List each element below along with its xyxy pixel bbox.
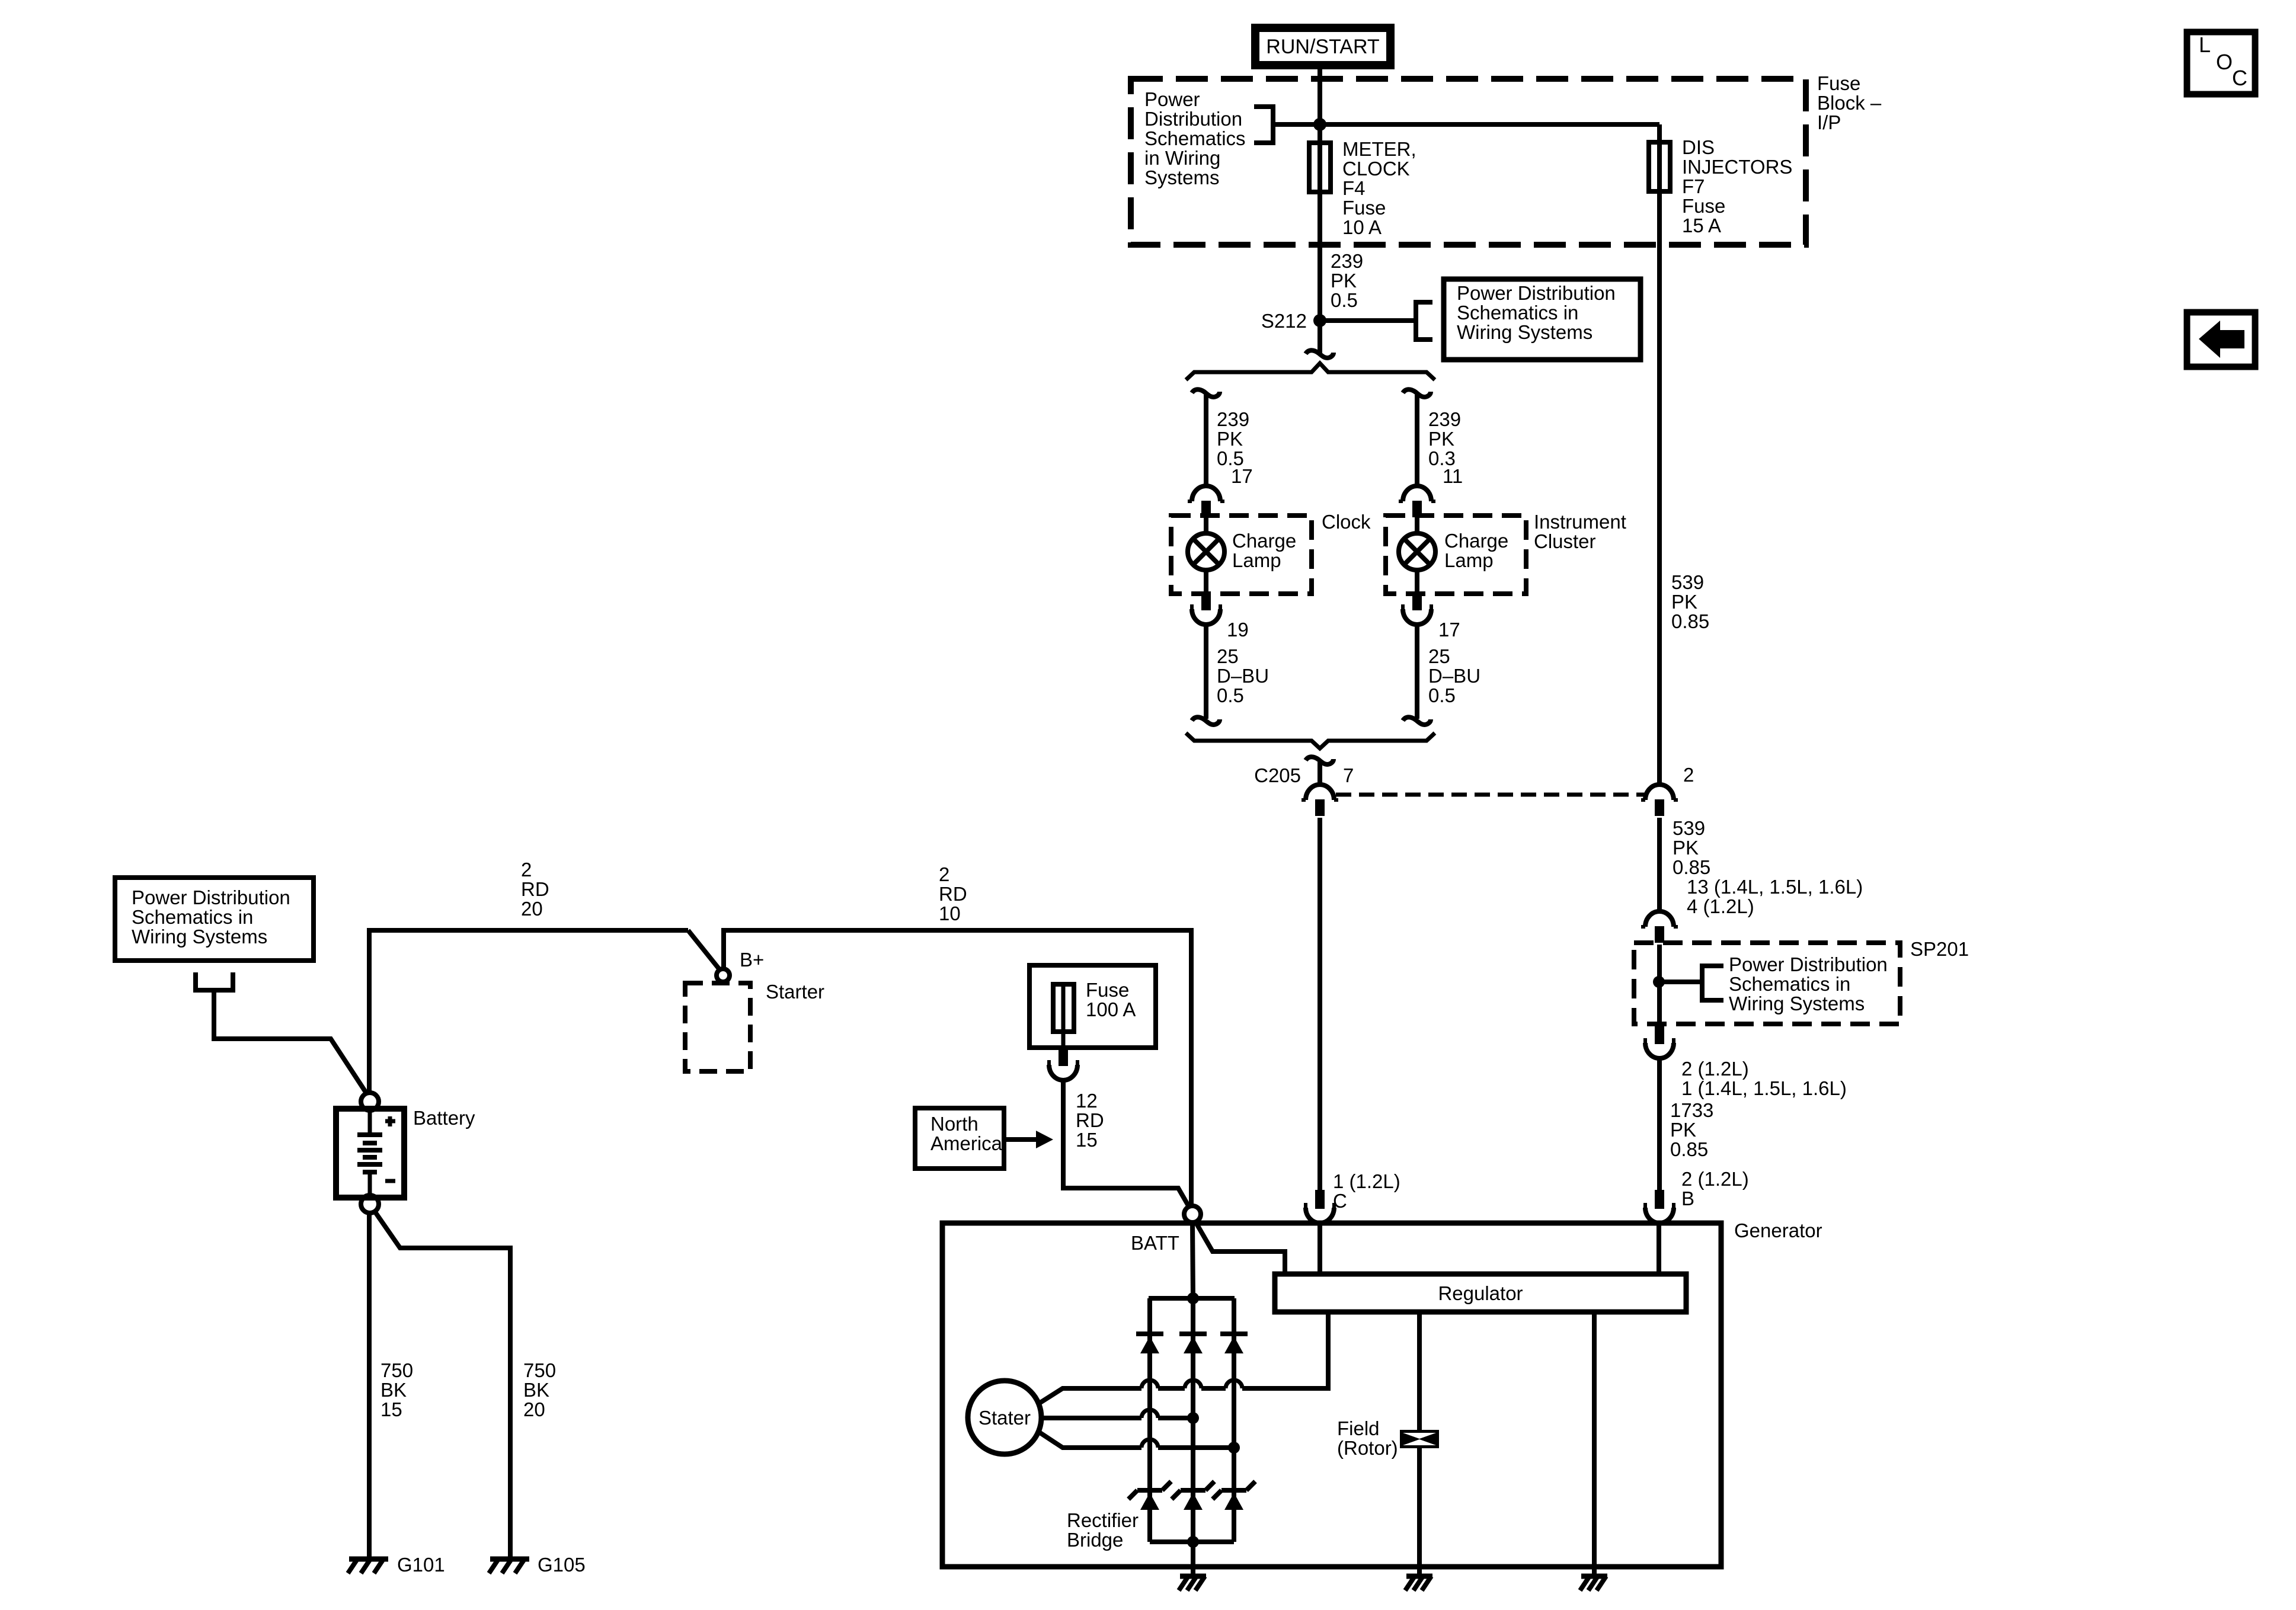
label B+ bbox=[740, 949, 764, 971]
ground G105 bbox=[490, 1557, 529, 1562]
instrument cluster dashed box bbox=[1386, 516, 1526, 594]
wire break below S212 bbox=[1306, 350, 1334, 358]
wire label 1733 PK 0.85 bbox=[1670, 1099, 1713, 1160]
svg-text:D–BU: D–BU bbox=[1428, 665, 1480, 687]
pins 2 / 1 engine variants bbox=[1681, 1058, 1847, 1099]
fuse 100A box bbox=[1029, 965, 1156, 1048]
wire break top of cluster branch bbox=[1403, 389, 1431, 397]
battery minus sign bbox=[385, 1179, 395, 1183]
battery cell symbol bbox=[368, 1109, 372, 1135]
svg-text:0.5: 0.5 bbox=[1217, 684, 1244, 706]
svg-text:O: O bbox=[2216, 50, 2233, 74]
label Battery bbox=[413, 1107, 475, 1129]
svg-text:1 (1.2L): 1 (1.2L) bbox=[1333, 1170, 1400, 1192]
connector generator terminal C (pin+cup) bbox=[1315, 1190, 1325, 1209]
label North America bbox=[930, 1113, 1003, 1154]
splice brace upper bbox=[1186, 363, 1435, 380]
label BATT bbox=[1131, 1232, 1179, 1254]
wire - BATT to regulator bbox=[1195, 1221, 1285, 1274]
svg-text:Schematics: Schematics bbox=[1144, 127, 1246, 149]
svg-text:Charge: Charge bbox=[1232, 530, 1296, 552]
svg-text:25: 25 bbox=[1428, 645, 1450, 667]
wire label 239 PK 0.5 (clock branch) bbox=[1217, 408, 1249, 469]
pins 13 / 4 engine variants bbox=[1687, 876, 1863, 917]
svg-text:0.5: 0.5 bbox=[1331, 289, 1358, 311]
svg-text:DIS: DIS bbox=[1682, 136, 1715, 158]
svg-text:BK: BK bbox=[523, 1379, 549, 1401]
svg-text:RD: RD bbox=[939, 883, 967, 905]
fuse F4 METER CLOCK 10A bbox=[1309, 143, 1331, 192]
rectifier column 1 wire bbox=[1147, 1298, 1152, 1542]
svg-text:25: 25 bbox=[1217, 645, 1239, 667]
connector into SP201 (dome+pin) bbox=[1645, 911, 1674, 927]
wire label 2 RD 20 bbox=[521, 859, 549, 920]
svg-text:BATT: BATT bbox=[1131, 1232, 1179, 1254]
svg-text:B: B bbox=[1681, 1188, 1694, 1209]
svg-text:750: 750 bbox=[380, 1359, 413, 1381]
connector generator terminal B (pin+cup) bbox=[1655, 1190, 1664, 1209]
wire - cluster branch lower bbox=[1415, 625, 1419, 719]
charge lamp (clock) indicator bbox=[1188, 533, 1224, 570]
ignition feed RUN/START box bbox=[1255, 28, 1390, 65]
wire - cluster lamp to connector bbox=[1415, 570, 1419, 594]
wire - into cluster lamp bbox=[1415, 518, 1419, 534]
connector into clock (dome+pin) bbox=[1192, 486, 1220, 501]
battery positive terminal circle bbox=[361, 1093, 379, 1110]
svg-text:17: 17 bbox=[1438, 619, 1460, 641]
svg-text:2: 2 bbox=[939, 863, 949, 885]
pin 2 / terminal B labels bbox=[1681, 1168, 1749, 1209]
svg-text:0.85: 0.85 bbox=[1670, 1138, 1708, 1160]
svg-text:1733: 1733 bbox=[1670, 1099, 1713, 1121]
svg-text:PK: PK bbox=[1673, 837, 1699, 859]
back arrow box bbox=[2187, 312, 2255, 367]
svg-text:PK: PK bbox=[1331, 270, 1357, 292]
stator winding circle bbox=[968, 1381, 1041, 1454]
svg-text:METER,: METER, bbox=[1342, 138, 1416, 160]
label inside fuse block: Power Distribution Schematics in Wiring Systems bbox=[1144, 88, 1246, 188]
ground below field bbox=[1406, 1574, 1432, 1579]
bracket to power distribution reference (S212) bbox=[1416, 302, 1432, 340]
wire - F7 fuse drop bbox=[1657, 124, 1662, 785]
pin 11 (cluster) bbox=[1443, 465, 1463, 487]
label S212 bbox=[1261, 310, 1307, 332]
svg-text:G101: G101 bbox=[397, 1554, 445, 1576]
svg-text:15 A: 15 A bbox=[1682, 215, 1721, 236]
label fuse F7 bbox=[1682, 136, 1792, 236]
svg-text:239: 239 bbox=[1217, 408, 1249, 430]
svg-text:1 (1.4L, 1.5L, 1.6L): 1 (1.4L, 1.5L, 1.6L) bbox=[1681, 1077, 1847, 1099]
bracket below battery reference box bbox=[196, 972, 233, 990]
label Regulator bbox=[1438, 1282, 1523, 1304]
svg-text:539: 539 bbox=[1673, 817, 1705, 839]
svg-text:BK: BK bbox=[380, 1379, 407, 1401]
rectifier column 3 wire bbox=[1232, 1298, 1236, 1542]
ground below rectifier bbox=[1180, 1574, 1206, 1579]
svg-text:2 (1.2L): 2 (1.2L) bbox=[1681, 1168, 1749, 1190]
pin 2 at C205 bbox=[1683, 764, 1694, 786]
wire break above C205 bbox=[1306, 757, 1334, 764]
svg-text:PK: PK bbox=[1217, 428, 1243, 450]
label Charge Lamp (cluster) bbox=[1444, 530, 1508, 571]
label G105 bbox=[538, 1554, 586, 1576]
avalanche diode lower col2 bbox=[1181, 1488, 1205, 1493]
svg-text:PK: PK bbox=[1670, 1119, 1696, 1141]
svg-text:PK: PK bbox=[1428, 428, 1454, 450]
svg-text:Distribution: Distribution bbox=[1144, 108, 1242, 130]
label SP201 reference bbox=[1729, 953, 1888, 1014]
label fuse F4 bbox=[1342, 138, 1416, 238]
rectifier column 2 wire bbox=[1191, 1298, 1195, 1542]
wire label 239 PK 0.5 (feed) bbox=[1331, 250, 1363, 311]
label reference box bbox=[1457, 282, 1616, 343]
splice brace lower bbox=[1186, 733, 1435, 748]
wire - clock branch lower bbox=[1204, 625, 1208, 719]
ground below regulator right leg bbox=[1581, 1574, 1607, 1579]
wire - SP201 node to bracket bbox=[1659, 980, 1702, 984]
diode upper col2 bbox=[1179, 1331, 1207, 1336]
wire - field to ground bbox=[1417, 1448, 1422, 1576]
svg-text:750: 750 bbox=[523, 1359, 556, 1381]
svg-text:I/P: I/P bbox=[1817, 111, 1841, 133]
wire - junction to DIS INJECTORS fuse F7 bbox=[1273, 122, 1659, 127]
svg-text:Wiring Systems: Wiring Systems bbox=[1729, 993, 1865, 1014]
wire label 25 D-BU 0.5 (clock) bbox=[1217, 645, 1269, 706]
svg-text:13 (1.4L, 1.5L, 1.6L): 13 (1.4L, 1.5L, 1.6L) bbox=[1687, 876, 1863, 898]
svg-text:Starter: Starter bbox=[766, 981, 824, 1003]
stator phase wire 1 bbox=[1038, 1388, 1141, 1404]
svg-text:Power Distribution: Power Distribution bbox=[132, 886, 290, 908]
connector below fuse 100A (pin+cup) bbox=[1059, 1047, 1068, 1066]
svg-text:(Rotor): (Rotor) bbox=[1337, 1437, 1398, 1459]
svg-text:10 A: 10 A bbox=[1342, 216, 1382, 238]
svg-text:2: 2 bbox=[521, 859, 532, 881]
svg-text:100 A: 100 A bbox=[1086, 998, 1136, 1020]
svg-text:Block –: Block – bbox=[1817, 92, 1882, 114]
wire - clock branch upper bbox=[1204, 395, 1208, 486]
svg-text:Stater: Stater bbox=[978, 1407, 1031, 1429]
label Charge Lamp (clock) bbox=[1232, 530, 1296, 571]
bracket to power distribution reference (SP201) bbox=[1702, 966, 1723, 1000]
svg-text:Instrument: Instrument bbox=[1534, 511, 1626, 533]
diode upper col1 bbox=[1136, 1331, 1163, 1336]
svg-text:Schematics in: Schematics in bbox=[132, 906, 253, 928]
field rotor winding symbol bbox=[1400, 1430, 1439, 1448]
pin 19 (clock out) bbox=[1227, 619, 1249, 641]
LOC legend box bbox=[2187, 32, 2255, 94]
reference box: Power Distribution Schematics in Wiring Systems bbox=[1444, 279, 1641, 360]
splice S212 bbox=[1313, 314, 1326, 327]
svg-text:C: C bbox=[2232, 66, 2247, 90]
svg-text:Battery: Battery bbox=[413, 1107, 475, 1129]
battery negative terminal circle bbox=[361, 1195, 379, 1213]
splice node in SP201 bbox=[1653, 976, 1665, 988]
clock dashed box bbox=[1171, 516, 1312, 594]
wire break bottom of cluster branch bbox=[1403, 717, 1431, 725]
battery plus sign bbox=[385, 1119, 395, 1124]
svg-text:S212: S212 bbox=[1261, 310, 1307, 332]
svg-text:B+: B+ bbox=[740, 949, 764, 971]
svg-text:Schematics in: Schematics in bbox=[1729, 973, 1850, 995]
svg-text:Systems: Systems bbox=[1144, 167, 1220, 188]
wire - battery negative to G105 bbox=[375, 1211, 510, 1559]
connector C205 link dashed line bbox=[1336, 793, 1646, 797]
wire - S212 to reference bracket bbox=[1320, 318, 1416, 323]
svg-text:C205: C205 bbox=[1254, 764, 1301, 786]
label Fuse Block - I/P bbox=[1817, 72, 1882, 133]
stator phase wire 2 bbox=[1041, 1416, 1141, 1420]
ground G101 bbox=[349, 1557, 388, 1562]
stator phase wire 3 bbox=[1038, 1432, 1141, 1448]
charge lamp (cluster) indicator bbox=[1399, 533, 1435, 570]
svg-text:2: 2 bbox=[1683, 764, 1694, 786]
svg-text:America: America bbox=[930, 1132, 1003, 1154]
pin 17 (clock) bbox=[1231, 465, 1253, 487]
svg-text:Clock: Clock bbox=[1322, 511, 1371, 533]
svg-text:11: 11 bbox=[1443, 465, 1463, 487]
wire label 750 BK 15 bbox=[380, 1359, 413, 1420]
wire - pin2 down to SP201 connector bbox=[1657, 818, 1662, 911]
svg-text:239: 239 bbox=[1331, 250, 1363, 272]
svg-text:RD: RD bbox=[521, 878, 549, 900]
label Fuse 100 A bbox=[1086, 979, 1136, 1020]
node junction at fuse block feed bbox=[1313, 118, 1326, 131]
diode upper col3 bbox=[1220, 1331, 1248, 1336]
svg-text:20: 20 bbox=[521, 898, 543, 920]
svg-text:20: 20 bbox=[523, 1398, 545, 1420]
svg-text:Fuse: Fuse bbox=[1342, 197, 1386, 219]
svg-text:19: 19 bbox=[1227, 619, 1249, 641]
svg-text:539: 539 bbox=[1671, 571, 1704, 593]
fuse block I/P dashed box bbox=[1131, 79, 1806, 245]
svg-text:G105: G105 bbox=[538, 1554, 586, 1576]
svg-text:0.5: 0.5 bbox=[1428, 684, 1456, 706]
wire - inside SP201 bbox=[1657, 945, 1662, 1025]
svg-text:0.85: 0.85 bbox=[1673, 856, 1710, 878]
label Rectifier Bridge bbox=[1067, 1509, 1139, 1551]
wire label 12 RD 15 bbox=[1076, 1090, 1104, 1151]
avalanche diode lower col1 bbox=[1137, 1488, 1162, 1493]
connector C205 pin 2 (dome+pin) bbox=[1645, 785, 1674, 800]
label Starter bbox=[766, 981, 824, 1003]
svg-text:Wiring Systems: Wiring Systems bbox=[1457, 321, 1593, 343]
svg-text:4 (1.2L): 4 (1.2L) bbox=[1687, 895, 1754, 917]
wire label 539 PK 0.85 (lower) bbox=[1673, 817, 1710, 878]
wire - reference bracket to battery bbox=[214, 990, 366, 1092]
wire - fuse 100A to BATT junction bbox=[1063, 1080, 1189, 1208]
svg-text:Power: Power bbox=[1144, 88, 1200, 110]
svg-text:North: North bbox=[930, 1113, 978, 1135]
rectifier bottom rail bbox=[1150, 1539, 1234, 1544]
svg-text:15: 15 bbox=[1076, 1129, 1098, 1151]
svg-text:7: 7 bbox=[1343, 764, 1354, 786]
svg-text:RD: RD bbox=[1076, 1109, 1104, 1131]
svg-text:12: 12 bbox=[1076, 1090, 1098, 1112]
label G101 bbox=[397, 1554, 445, 1576]
svg-text:CLOCK: CLOCK bbox=[1342, 158, 1410, 180]
label Field (Rotor) bbox=[1337, 1417, 1398, 1459]
svg-text:D–BU: D–BU bbox=[1217, 665, 1269, 687]
wire label 750 BK 20 bbox=[523, 1359, 556, 1420]
svg-text:Cluster: Cluster bbox=[1534, 530, 1596, 552]
svg-text:F7: F7 bbox=[1682, 175, 1705, 197]
svg-text:Wiring Systems: Wiring Systems bbox=[132, 926, 267, 948]
pin 17 (cluster out) bbox=[1438, 619, 1460, 641]
fuse 100A symbol bbox=[1053, 984, 1074, 1032]
label C205 bbox=[1254, 764, 1301, 786]
label Generator bbox=[1734, 1219, 1822, 1241]
svg-text:Generator: Generator bbox=[1734, 1219, 1822, 1241]
terminal B+ circle bbox=[717, 969, 730, 982]
svg-text:Power Distribution: Power Distribution bbox=[1729, 953, 1888, 975]
wire - RUN/START to S212 through fuse F4 bbox=[1318, 65, 1322, 353]
wire - BATT to rectifier bridge bbox=[1192, 1222, 1193, 1298]
svg-text:Charge: Charge bbox=[1444, 530, 1508, 552]
label battery reference box bbox=[132, 886, 290, 948]
north america arrow bbox=[1004, 1137, 1036, 1142]
label Clock bbox=[1322, 511, 1371, 533]
svg-text:Lamp: Lamp bbox=[1232, 549, 1281, 571]
wire - C205 to generator terminal C bbox=[1318, 818, 1322, 1191]
wire label 25 D-BU 0.5 (cluster) bbox=[1428, 645, 1480, 706]
rectifier top rail bbox=[1149, 1296, 1235, 1301]
wire - cluster branch upper bbox=[1415, 395, 1419, 486]
pin 1 / terminal C labels bbox=[1333, 1170, 1400, 1212]
avalanche diode lower col3 bbox=[1221, 1488, 1246, 1493]
wire - starter branch to fuse block feed bbox=[724, 930, 1191, 1206]
wire - brace to C205 bbox=[1318, 762, 1322, 785]
wire - SP201 to generator terminal B bbox=[1657, 1058, 1662, 1191]
reference box (battery): Power Distribution Schematics in Wiring Systems bbox=[115, 878, 314, 961]
svg-text:10: 10 bbox=[939, 902, 961, 924]
wire break top of clock branch bbox=[1192, 389, 1220, 397]
wire - battery negative to G101 bbox=[367, 1213, 372, 1559]
svg-text:2 (1.2L): 2 (1.2L) bbox=[1681, 1058, 1749, 1080]
label SP201 bbox=[1910, 938, 1969, 960]
wire - regulator right leg to ground bbox=[1592, 1312, 1597, 1576]
svg-text:Bridge: Bridge bbox=[1067, 1529, 1123, 1551]
svg-text:F4: F4 bbox=[1342, 177, 1366, 199]
svg-text:Lamp: Lamp bbox=[1444, 549, 1494, 571]
wire label 239 PK 0.3 (cluster branch) bbox=[1428, 408, 1461, 469]
node at rectifier top rail bbox=[1187, 1292, 1199, 1304]
svg-text:Fuse: Fuse bbox=[1682, 195, 1725, 217]
svg-text:Power Distribution: Power Distribution bbox=[1457, 282, 1616, 304]
connector out of SP201 (pin+cup) bbox=[1655, 1025, 1664, 1044]
wire - clock lamp to connector bbox=[1204, 570, 1208, 594]
wire - terminal C to regulator bbox=[1318, 1225, 1322, 1274]
connector into instrument cluster (dome+pin) bbox=[1403, 486, 1431, 501]
regulator box bbox=[1275, 1274, 1686, 1312]
wire label 539 PK 0.85 (upper) bbox=[1671, 571, 1709, 632]
svg-text:L: L bbox=[2199, 33, 2211, 57]
svg-text:Fuse: Fuse bbox=[1086, 979, 1129, 1001]
terminal BATT circle bbox=[1184, 1206, 1201, 1222]
svg-text:SP201: SP201 bbox=[1910, 938, 1969, 960]
svg-text:Rectifier: Rectifier bbox=[1067, 1509, 1139, 1531]
wire break bottom of clock branch bbox=[1192, 717, 1220, 725]
svg-text:in Wiring: in Wiring bbox=[1144, 147, 1220, 169]
svg-text:Field: Field bbox=[1337, 1417, 1380, 1439]
svg-text:17: 17 bbox=[1231, 465, 1253, 487]
fuse F7 DIS INJECTORS 15A bbox=[1649, 142, 1670, 191]
pin 7 at C205 bbox=[1343, 764, 1354, 786]
svg-text:Regulator: Regulator bbox=[1438, 1282, 1523, 1304]
svg-text:239: 239 bbox=[1428, 408, 1461, 430]
connector out of cluster (pin+cup) bbox=[1412, 591, 1422, 610]
svg-text:0.85: 0.85 bbox=[1671, 610, 1709, 632]
north america option box bbox=[915, 1108, 1004, 1169]
svg-text:INJECTORS: INJECTORS bbox=[1682, 156, 1792, 178]
wire - into clock lamp bbox=[1204, 518, 1208, 534]
wire label 2 RD 10 bbox=[939, 863, 967, 924]
node at rectifier bottom rail bbox=[1187, 1536, 1199, 1548]
wire - battery positive to starter branch bbox=[369, 930, 688, 1093]
label Instrument Cluster bbox=[1534, 511, 1626, 552]
starter dashed box bbox=[685, 983, 750, 1071]
SP201 dashed box bbox=[1634, 943, 1900, 1024]
svg-text:Fuse: Fuse bbox=[1817, 72, 1860, 94]
wire - rectifier to ground bbox=[1191, 1542, 1195, 1576]
connector C205 pin 7 (dome+pin) bbox=[1306, 785, 1334, 800]
svg-text:PK: PK bbox=[1671, 591, 1697, 613]
svg-text:RUN/START: RUN/START bbox=[1266, 36, 1379, 58]
wire - branch to starter B+ bbox=[688, 930, 720, 969]
svg-text:15: 15 bbox=[380, 1398, 402, 1420]
battery box bbox=[336, 1109, 404, 1198]
generator box bbox=[942, 1223, 1721, 1567]
wire - regulator to field bbox=[1417, 1312, 1422, 1430]
connector out of clock (pin+cup) bbox=[1201, 591, 1211, 610]
bracket to power distribution reference (left) bbox=[1254, 107, 1273, 143]
wire - terminal B to regulator bbox=[1657, 1225, 1661, 1274]
svg-text:Schematics in: Schematics in bbox=[1457, 302, 1578, 324]
